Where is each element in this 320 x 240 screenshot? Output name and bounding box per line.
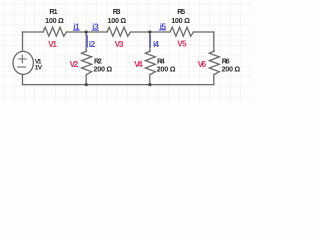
svg-text:R3: R3 (113, 7, 121, 16)
svg-text:100 Ω: 100 Ω (45, 16, 64, 25)
svg-text:i1: i1 (73, 22, 80, 32)
svg-text:100 Ω: 100 Ω (108, 16, 127, 25)
svg-text:i2: i2 (89, 39, 96, 49)
svg-text:100 Ω: 100 Ω (171, 16, 190, 25)
svg-text:V4: V4 (134, 60, 143, 69)
svg-text:1 V: 1 V (35, 64, 43, 71)
svg-text:V6: V6 (198, 60, 207, 69)
svg-text:i3: i3 (92, 22, 99, 32)
svg-text:200 Ω: 200 Ω (157, 64, 176, 73)
svg-text:200 Ω: 200 Ω (94, 64, 113, 73)
svg-text:200 Ω: 200 Ω (222, 64, 241, 73)
svg-text:i5: i5 (160, 21, 167, 31)
svg-text:V3: V3 (115, 40, 124, 49)
svg-text:R5: R5 (177, 7, 185, 16)
svg-text:V1: V1 (48, 40, 57, 49)
svg-text:R1: R1 (49, 7, 57, 16)
svg-text:V2: V2 (70, 60, 79, 69)
svg-text:V5: V5 (177, 40, 187, 49)
svg-text:i4: i4 (153, 39, 159, 49)
